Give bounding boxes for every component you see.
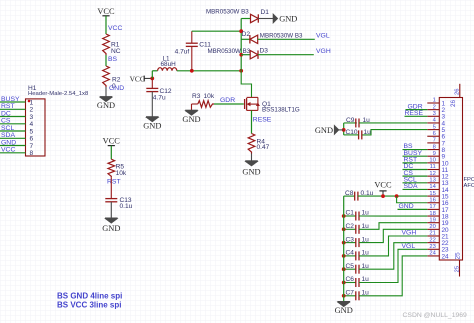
FPC pin 8 lead [427, 149, 439, 151]
svg-text:C5: C5 [346, 263, 355, 270]
svg-text:C10: C10 [346, 129, 358, 136]
svg-text:7: 7 [433, 138, 436, 144]
FPC pin 26 lead [459, 84, 461, 98]
svg-text:24: 24 [442, 253, 450, 260]
wire D3 to VGH [258, 54, 314, 56]
FPC pin 8 numbers [433, 144, 446, 154]
svg-text:SDA: SDA [404, 183, 418, 190]
svg-text:NC: NC [111, 48, 121, 55]
FPC pin 9 numbers [433, 151, 446, 161]
wire RST to FPC pin 10 [403, 162, 428, 164]
wire GDR to FPC pin 2 [406, 109, 428, 111]
diode D2 label [242, 31, 303, 39]
H1 pin number 5 [30, 128, 34, 135]
svg-text:18: 18 [429, 211, 435, 217]
svg-text:BS VCC 3line spi: BS VCC 3line spi [57, 301, 121, 310]
svg-text:GND: GND [97, 101, 115, 110]
wire R4 to ground [251, 154, 253, 161]
svg-text:5: 5 [30, 128, 34, 135]
svg-text:10: 10 [429, 158, 435, 164]
FPC pin 20 lead [427, 228, 439, 230]
svg-text:10k: 10k [204, 93, 215, 100]
svg-text:MBR0530W B3: MBR0530W B3 [206, 8, 249, 15]
FPC pin 7 lead [427, 142, 439, 144]
svg-text:VCC: VCC [374, 180, 392, 189]
wire H1 pin 5 net SCL [0, 130, 26, 132]
wire VCC to R1 [105, 16, 107, 34]
FPC pin 6 numbers [433, 131, 446, 141]
svg-text:C7: C7 [346, 290, 355, 297]
svg-text:GND: GND [399, 203, 414, 210]
svg-text:21: 21 [429, 231, 435, 237]
ground (C9/C10, right facing) [315, 125, 339, 135]
H1 pin number 8 [30, 150, 34, 157]
watermark [403, 312, 468, 319]
ground (R2) [97, 97, 115, 110]
FPC pin 11 lead [427, 169, 439, 171]
FPC pin 25 numbers [454, 252, 461, 273]
wire BS to FPC pin 8 [403, 149, 428, 151]
capacitor C4 and wire to FPC pin 21 [344, 236, 428, 260]
resistor R3 [192, 101, 215, 108]
svg-text:VGL: VGL [316, 33, 330, 40]
svg-text:VCC: VCC [97, 7, 115, 16]
net label VCC (H1 pin 8) [1, 147, 15, 154]
svg-text:1: 1 [433, 98, 436, 104]
svg-text:12: 12 [429, 171, 435, 177]
wire R5 to C13 [110, 178, 112, 199]
FPC pin 11 numbers [430, 164, 449, 174]
note text line 1 [57, 291, 122, 300]
junction C9/C10 ground [342, 128, 346, 132]
wire H1 pin 3 net DC [0, 116, 26, 118]
svg-text:VCC: VCC [1, 147, 15, 154]
svg-text:6: 6 [30, 136, 34, 143]
junction bus C7 [342, 294, 346, 298]
svg-text:1u: 1u [363, 117, 371, 124]
FPC pin 21 numbers [429, 231, 449, 241]
FPC pin 17 numbers [429, 204, 449, 214]
FPC pin 7 numbers [433, 138, 446, 148]
FPC pin 24 lead [427, 255, 439, 257]
svg-text:CS: CS [1, 118, 11, 125]
svg-text:C8: C8 [345, 190, 354, 197]
capacitor C1 and wire to FPC pin 18 [344, 210, 428, 221]
power port VCC (R5) [103, 137, 121, 146]
connector H1 body [26, 99, 46, 156]
svg-text:0.1u: 0.1u [361, 190, 374, 197]
net label SDA (FPC pin 14) [404, 183, 418, 190]
svg-text:VCC: VCC [103, 137, 121, 146]
note text line 2 [57, 301, 121, 310]
FPC pin 4 lead [427, 122, 439, 124]
capacitor C3 and wire to FPC pin 20 [344, 229, 428, 247]
wire C13 to ground [110, 202, 112, 218]
svg-text:7: 7 [30, 143, 34, 150]
net label DC (H1 pin 3) [1, 110, 11, 117]
svg-text:10k: 10k [116, 170, 127, 177]
svg-text:GND: GND [1, 139, 16, 146]
net label VCC [108, 25, 122, 32]
FPC pin 6 lead [427, 135, 439, 137]
wire R3 to Q1 gate [214, 103, 244, 105]
junction VCC/C8 [381, 194, 385, 198]
FPC pin 2 lead [427, 109, 439, 111]
net label BS (FPC pin 8) [404, 143, 414, 150]
wire L1 to C11/diodes [177, 70, 241, 72]
wire C9/C10 join [343, 123, 345, 135]
net label CS (H1 pin 4) [1, 118, 11, 125]
svg-text:2: 2 [30, 107, 34, 114]
FPC pin 19 lead [427, 222, 439, 224]
svg-text:C2: C2 [346, 223, 355, 230]
net label CS (FPC pin 12) [404, 170, 414, 177]
net label SCL (H1 pin 5) [1, 125, 14, 132]
svg-text:DC: DC [1, 110, 11, 117]
wire diode bus vertical [240, 19, 242, 71]
wire DC to FPC pin 11 [403, 169, 428, 171]
FPC pin 14 lead [427, 188, 439, 190]
inductor L1 [158, 55, 177, 70]
svg-text:0.47: 0.47 [257, 144, 270, 151]
net label RST (FPC pin 10) [404, 156, 418, 163]
power port VCC (FPC) [374, 180, 392, 196]
svg-text:C6: C6 [346, 276, 355, 283]
svg-text:BSS138LT1G: BSS138LT1G [262, 107, 300, 114]
wire H1 pin 4 net CS [0, 123, 26, 125]
svg-text:BS GND 4line spi: BS GND 4line spi [57, 291, 122, 300]
FPC pin 23 lead [427, 248, 439, 250]
svg-text:1u: 1u [364, 129, 372, 136]
FPC pin 14 numbers [429, 184, 449, 194]
wire node to Q1 drain [241, 71, 251, 98]
svg-text:8: 8 [433, 144, 436, 150]
svg-text:CSDN @NULL_1969: CSDN @NULL_1969 [403, 312, 468, 319]
diode D1 label [206, 8, 269, 16]
wire H1 pin 8 net VCC [0, 152, 26, 154]
net label GND (R2) [109, 85, 124, 92]
svg-text:1: 1 [30, 99, 34, 106]
wire D2 to VGL [258, 38, 315, 40]
wire C11 top to diode node [192, 30, 241, 32]
FPC pin 1 lead [427, 102, 439, 104]
wire GND to FPC pin 17 [398, 208, 428, 210]
wire ground bus [343, 196, 345, 301]
junction C11 bottom [190, 69, 194, 73]
svg-text:GND: GND [143, 122, 161, 131]
FPC pin 16 numbers [429, 197, 449, 207]
junction bus C2 [342, 227, 346, 231]
capacitor C5 and wire to FPC pin 22 [344, 243, 428, 274]
net label GND (H1 pin 7) [1, 139, 16, 146]
wire D1 cathode to GND [258, 18, 273, 20]
power port VCC (boost input) [130, 74, 153, 83]
svg-text:C3: C3 [346, 236, 355, 243]
junction bus C6 [342, 281, 346, 285]
diode D3 label [208, 48, 269, 56]
svg-text:11: 11 [430, 164, 436, 170]
svg-text:GDR: GDR [220, 97, 235, 104]
FPC pin 5 numbers [433, 124, 446, 134]
wire Q1 source to R4 [251, 110, 253, 133]
svg-text:25: 25 [454, 266, 460, 272]
net label VGL (D2) [316, 33, 330, 40]
junction bus C4 [342, 254, 346, 258]
connector H1 label [28, 85, 89, 97]
svg-text:D2: D2 [242, 31, 251, 38]
junction bus C3 [342, 241, 346, 245]
ground (C12) [143, 117, 161, 131]
svg-text:6: 6 [433, 131, 436, 137]
wire VCC to R5 [110, 146, 112, 160]
svg-text:3: 3 [30, 114, 34, 121]
net label BUSY (FPC pin 9) [404, 150, 423, 157]
svg-text:GND: GND [335, 306, 353, 315]
capacitor C6 and wire to FPC pin 23 [344, 249, 428, 287]
ground (R3) [182, 110, 200, 123]
resistor R4 [248, 134, 269, 154]
connector FPC body [439, 98, 462, 261]
capacitor C8 [344, 190, 428, 201]
FPC pin 3 lead [427, 115, 439, 117]
svg-text:R3: R3 [192, 93, 201, 100]
FPC pin 13 numbers [429, 178, 449, 188]
wire BUSY to FPC pin 9 [403, 155, 428, 157]
ground (C13) [102, 218, 120, 233]
net label RST (H1 pin 2) [1, 103, 15, 110]
net label BS [108, 56, 118, 63]
resistor R2 [103, 66, 121, 90]
H1 pin number 3 [30, 114, 34, 121]
svg-text:17: 17 [429, 204, 435, 210]
svg-text:13: 13 [429, 178, 435, 184]
FPC pin 3 numbers [433, 111, 446, 121]
svg-text:24: 24 [429, 251, 436, 257]
capacitor C13 [105, 197, 132, 210]
diode D2 [250, 35, 258, 43]
FPC pin 13 lead [427, 182, 439, 184]
svg-text:SCL: SCL [1, 125, 14, 132]
svg-text:RST: RST [107, 178, 121, 185]
wire to D2 cathode [241, 38, 250, 40]
wire R2 to ground [105, 87, 107, 97]
junction diode bus / C11 [239, 29, 243, 33]
svg-text:22: 22 [429, 237, 435, 243]
svg-text:MBR0530W B3: MBR0530W B3 [260, 32, 303, 39]
wire CS to FPC pin 12 [403, 175, 428, 177]
FPC pin 20 numbers [429, 224, 449, 234]
wire H1 pin 2 net RST [0, 108, 26, 110]
wire H1 pin 7 net GND [0, 145, 26, 147]
svg-text:C1: C1 [346, 210, 355, 217]
svg-text:Header-Male-2.54_1x8: Header-Male-2.54_1x8 [28, 91, 89, 97]
svg-text:BUSY: BUSY [1, 96, 20, 103]
svg-text:9: 9 [433, 151, 436, 157]
net label RESE (source) [253, 117, 272, 124]
FPC pin 2 numbers [433, 104, 446, 114]
H1 pin number 4 [30, 121, 34, 128]
FPC pin 17 lead [427, 208, 439, 210]
net label VGH (D3) [316, 48, 331, 55]
wire junction to ground [339, 129, 344, 131]
wire VCC up to L1 [152, 71, 157, 79]
net label DC (FPC pin 11) [404, 163, 414, 170]
junction D3 tap [239, 53, 243, 57]
svg-text:SDA: SDA [1, 132, 15, 139]
wire to D3 anode [241, 54, 250, 56]
net label GND (FPC pin 17) [399, 203, 414, 210]
ground (D1, right facing) [273, 14, 297, 24]
wire SDA to FPC pin 14 [403, 188, 428, 190]
ground (R4) [242, 161, 260, 177]
resistor R5 [108, 159, 127, 178]
FPC pin 25 lead [459, 260, 461, 277]
FPC pin 19 numbers [429, 217, 449, 227]
H1 pin number 1 [30, 99, 34, 106]
junction bus C5 [342, 267, 346, 271]
FPC pin 4 numbers [433, 118, 446, 128]
capacitor C9 [344, 117, 428, 128]
svg-text:3: 3 [433, 111, 436, 117]
svg-text:68uH: 68uH [161, 61, 177, 68]
svg-text:VGL: VGL [402, 243, 416, 250]
FPC pin 5 lead [427, 129, 439, 131]
wire RESE to FPC pin 3 [405, 115, 428, 117]
svg-text:VGH: VGH [316, 48, 331, 55]
svg-text:VGH: VGH [402, 230, 417, 237]
wire branch to FPC pin 16 [397, 196, 428, 203]
FPC pin 12 numbers [429, 171, 449, 181]
junction bus C1 [342, 214, 346, 218]
svg-text:VCC: VCC [130, 74, 145, 83]
svg-text:8: 8 [30, 150, 34, 157]
svg-text:GND: GND [109, 85, 124, 92]
FPC pin 16 lead [427, 202, 439, 204]
FPC pin 24 numbers [429, 251, 449, 261]
FPC pin 23 numbers [429, 244, 449, 254]
wire to D1 anode [241, 18, 250, 20]
svg-text:GND: GND [279, 15, 297, 24]
svg-text:GND: GND [102, 224, 120, 233]
net label BUSY (H1 pin 1) [1, 96, 20, 103]
junction VCC node [150, 77, 154, 81]
svg-text:GND: GND [315, 126, 333, 135]
svg-text:4.7uf: 4.7uf [175, 48, 190, 55]
svg-text:5: 5 [433, 124, 436, 130]
svg-text:26: 26 [450, 99, 457, 107]
transistor Q1 label [262, 101, 300, 114]
svg-text:AFC: AFC [464, 183, 474, 189]
H1 pin number 7 [30, 143, 34, 150]
wire C12 to ground [151, 92, 153, 117]
resistor R1 [103, 34, 121, 55]
svg-text:BS: BS [108, 56, 118, 63]
svg-text:D3: D3 [260, 48, 269, 55]
svg-text:GND: GND [242, 168, 260, 177]
ground (bus bottom) [335, 302, 353, 315]
capacitor C11 [175, 31, 212, 71]
net label VGL (FPC pin 23) [402, 243, 416, 250]
connector FPC part name [464, 177, 474, 189]
svg-text:14: 14 [429, 184, 436, 190]
svg-text:26: 26 [455, 89, 461, 95]
wire H1 pin 1 net BUSY [0, 101, 26, 103]
FPC pin 15 lead [427, 195, 439, 197]
transistor Q1 [245, 97, 260, 110]
H1 pin number 2 [30, 107, 34, 114]
net label SCL (FPC pin 13) [404, 176, 417, 183]
resistor R3 label [192, 93, 215, 100]
net label RESE (FPC) [405, 110, 424, 117]
diode D3 [250, 51, 258, 59]
svg-text:20: 20 [429, 224, 435, 230]
svg-text:0.1u: 0.1u [120, 203, 133, 210]
net label SDA (H1 pin 6) [1, 132, 15, 139]
FPC pin 9 lead [427, 155, 439, 157]
power port VCC (top left) [97, 7, 115, 16]
capacitor C2 and wire to FPC pin 19 [344, 223, 428, 234]
junction pin16 branch [395, 194, 399, 198]
svg-text:2: 2 [433, 104, 436, 110]
FPC pin 21 lead [427, 235, 439, 237]
FPC pin 26 numbers [450, 89, 461, 107]
FPC pin 10 lead [427, 162, 439, 164]
diode D1 [251, 14, 259, 22]
capacitor C7 and wire to FPC pin 24 [344, 256, 428, 300]
svg-text:RST: RST [1, 103, 15, 110]
H1 pin number 6 [30, 136, 34, 143]
wire R1 to R2 [105, 55, 107, 66]
svg-text:C9: C9 [346, 117, 355, 124]
junction main node [239, 69, 243, 73]
svg-text:D1: D1 [261, 9, 270, 16]
FPC pin 1 numbers [433, 98, 446, 108]
svg-text:C4: C4 [346, 250, 355, 257]
FPC pin 12 lead [427, 175, 439, 177]
wire H1 pin 6 net SDA [0, 137, 26, 139]
svg-text:23: 23 [429, 244, 435, 250]
capacitor C10 [344, 129, 371, 140]
svg-text:RESE: RESE [405, 110, 424, 117]
svg-text:VCC: VCC [108, 25, 122, 32]
FPC pin 15 numbers [429, 191, 449, 201]
svg-text:4: 4 [30, 121, 34, 128]
net label VGH (FPC pin 21) [402, 230, 417, 237]
net label GDR (gate) [220, 97, 235, 104]
wire FPC pin5 jog [362, 130, 428, 135]
FPC pin 18 numbers [429, 211, 449, 221]
svg-text:RESE: RESE [253, 117, 272, 124]
net label GDR (FPC) [408, 103, 423, 110]
svg-text:15: 15 [429, 191, 435, 197]
capacitor C12 [146, 78, 172, 101]
svg-text:25: 25 [455, 252, 462, 260]
FPC pin 22 lead [427, 242, 439, 244]
FPC pin 10 numbers [429, 158, 449, 168]
svg-text:4.7u: 4.7u [153, 95, 166, 102]
svg-text:GND: GND [182, 115, 200, 124]
wire SCL to FPC pin 13 [403, 182, 428, 184]
svg-text:16: 16 [429, 197, 435, 203]
FPC pin 18 lead [427, 215, 439, 217]
svg-text:19: 19 [429, 217, 435, 223]
FPC pin 22 numbers [429, 237, 449, 247]
net label RST (R5/C13) [107, 178, 121, 185]
wire R3 to ground [191, 104, 193, 110]
